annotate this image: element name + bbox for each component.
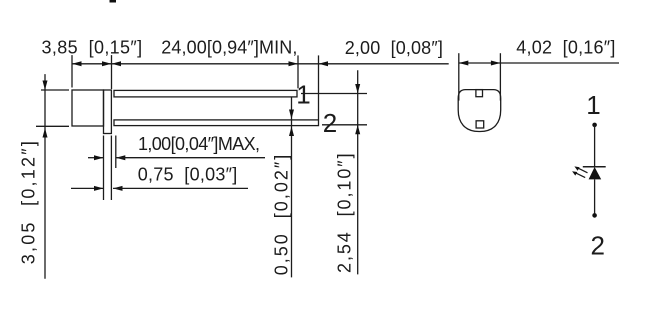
arrow up 0,50 (289, 127, 294, 137)
svg-text:2: 2 (590, 230, 604, 260)
svg-text:0,75 [0,03″]: 0,75 [0,03″] (138, 165, 238, 185)
svg-text:1: 1 (586, 90, 600, 120)
LED flange (side view) (104, 90, 112, 134)
dimension line 4,02 (459, 62, 619, 64)
extension line flange left lower (103, 136, 105, 201)
top edge artifact (110, 0, 117, 3)
extension line lead1 end (297, 55, 299, 88)
lead 2 (side view) (114, 120, 319, 126)
extension line lead start lower (115, 136, 117, 169)
svg-text:0,50 [0,02″]: 0,50 [0,02″] (272, 154, 292, 275)
arrow right-pointing 1,00 (94, 155, 104, 160)
svg-text:1,00[0,04″]MAX,: 1,00[0,04″]MAX, (138, 134, 261, 154)
lead 1 (side view) (114, 90, 297, 97)
dimension line 2,54 vertical (357, 70, 359, 274)
arrow right 2,00 (319, 61, 329, 66)
extension line body left (71, 55, 73, 87)
lead 1 square (top view) (476, 90, 483, 97)
LED top view outline (458, 90, 501, 132)
emission arrow 2 (572, 171, 585, 177)
schematic pin 1 dot (592, 123, 597, 128)
LED body outline (side view) (72, 90, 104, 126)
dimension line 0,75 right segment (113, 187, 248, 189)
svg-text:2: 2 (323, 108, 337, 138)
schematic pin 2 dot (592, 213, 597, 218)
svg-text:24,00[0,94″]MIN,: 24,00[0,94″]MIN, (161, 38, 298, 58)
arrow up 3,05 (43, 128, 48, 138)
arrow down 0,50 (289, 110, 294, 120)
schematic wire top (594, 125, 596, 167)
dimension line 1,00 left segment (88, 157, 104, 159)
svg-text:3,05 [0,12″]: 3,05 [0,12″] (19, 141, 39, 265)
arrow down 2,54 (355, 84, 360, 94)
arrow left-pointing 1,00 (116, 155, 126, 160)
arrow right-pointing 0,75 (94, 186, 104, 191)
schematic cathode bar (583, 166, 606, 168)
arrow left 4,02 (459, 61, 469, 66)
dimension line 0,50 vertical (291, 97, 293, 278)
arrow right 24,00 / left 2,00 (289, 61, 299, 66)
arrow left 24,00 (112, 61, 122, 66)
extension line top-view right (499, 53, 501, 100)
lead 2 square (top view) (476, 121, 484, 128)
arrow left-pointing 0,75 (113, 186, 123, 191)
dimension line 3,05 vertical (44, 74, 46, 279)
svg-text:4,02 [0,16″]: 4,02 [0,16″] (516, 38, 616, 58)
svg-text:3,85 [0,15″]: 3,85 [0,15″] (42, 38, 143, 58)
dimension line 1,00 right segment (116, 157, 265, 159)
extension line lead1 axis right (301, 93, 367, 95)
extension line top-view left (458, 53, 460, 100)
extension line flange right lower (110, 136, 112, 201)
emission arrow 1 (574, 166, 587, 172)
extension line lead2 axis right (322, 124, 367, 126)
arrow left 3,85 (72, 61, 82, 66)
schematic wire bottom (594, 179, 596, 215)
top dimension line 3,85 / 24,00 (72, 63, 319, 65)
extension line body bottom left (36, 125, 69, 127)
LED triangle (schematic diode) (589, 167, 602, 179)
arrow down 3,05 (43, 81, 48, 91)
arrow up 2,54 (355, 125, 360, 135)
extension line body top left (41, 89, 69, 91)
leader line 2,00 (319, 63, 449, 65)
extension line lead2 end (318, 55, 320, 119)
svg-text:2,00 [0,08″]: 2,00 [0,08″] (345, 38, 444, 58)
svg-text:2,54 [0,10″]: 2,54 [0,10″] (335, 153, 355, 273)
extension line flange right (111, 55, 113, 89)
dimension line 0,75 left segment (71, 187, 104, 189)
arrow right 3,85 (102, 61, 112, 66)
arrow right 4,02 (491, 61, 501, 66)
